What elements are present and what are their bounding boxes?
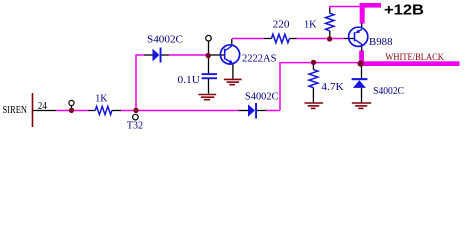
- svg-text:WHITE/BLACK: WHITE/BLACK: [385, 52, 444, 62]
- svg-text:S4002C: S4002C: [245, 90, 279, 102]
- svg-text:1K: 1K: [95, 92, 107, 104]
- svg-text:S4002C: S4002C: [373, 85, 404, 97]
- svg-text:SIREN: SIREN: [3, 105, 28, 116]
- svg-text:B988: B988: [369, 36, 393, 48]
- svg-text:24: 24: [38, 101, 47, 112]
- svg-text:4.7K: 4.7K: [321, 81, 344, 93]
- svg-text:S4002C: S4002C: [147, 34, 183, 46]
- svg-text:2222AS: 2222AS: [242, 52, 277, 64]
- svg-text:220: 220: [273, 18, 291, 30]
- svg-text:0.1U: 0.1U: [178, 74, 201, 86]
- svg-text:1K: 1K: [304, 18, 317, 30]
- svg-text:+12B: +12B: [384, 2, 424, 19]
- svg-text:T32: T32: [127, 119, 143, 131]
